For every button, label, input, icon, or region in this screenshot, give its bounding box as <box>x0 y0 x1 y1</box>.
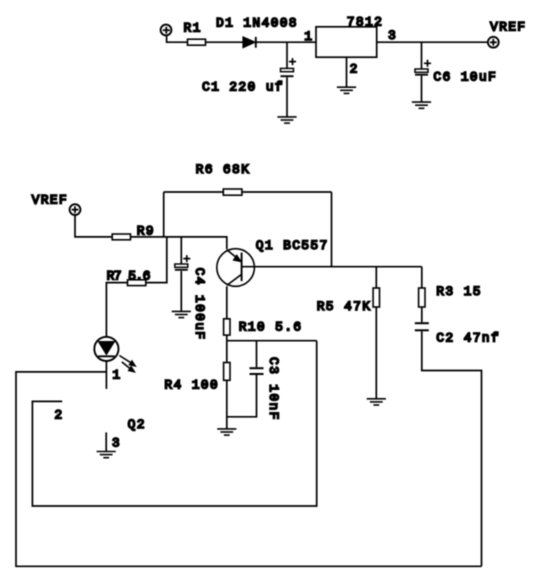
svg-text:C3 10nF: C3 10nF <box>266 357 281 421</box>
wire Q1 base line to R3 corner <box>242 266 422 268</box>
wire node N1 up to R6 (left leg) <box>163 192 165 237</box>
svg-text:C6 10uF: C6 10uF <box>433 69 497 84</box>
capacitor C1 220uf (polarized) <box>281 68 294 76</box>
svg-text:C4 100uF: C4 100uF <box>192 268 207 341</box>
svg-text:R10 5.6: R10 5.6 <box>239 319 303 334</box>
wire C1 to ground <box>286 77 288 117</box>
svg-text:2: 2 <box>54 407 63 422</box>
wire junction rail right to inner loop <box>227 340 317 342</box>
node N1 tap to C4 <box>180 237 182 264</box>
ground (U1 pin 2) <box>337 87 356 93</box>
wire C4 to ground <box>180 271 182 311</box>
svg-text:R1: R1 <box>184 21 202 36</box>
wire C3 bottom to R4 bottom node <box>227 375 257 417</box>
resistor R6 <box>223 189 242 195</box>
input terminal (plus circle) <box>161 25 172 36</box>
wire U1 pin 2 to ground <box>346 57 348 87</box>
resistor R5 <box>373 288 379 307</box>
wire input terminal to R1 <box>167 36 188 43</box>
wire D1 to U1 pin 1 <box>256 41 316 43</box>
svg-text:1: 1 <box>112 367 121 382</box>
resistor R10 <box>224 319 230 335</box>
svg-text:R5 47K: R5 47K <box>317 299 372 314</box>
wire LED node left to outer loop <box>16 372 482 566</box>
wire base line corner down to R3 <box>421 267 423 288</box>
capacitor C3 10nF <box>250 368 264 374</box>
terminal VREF (output) <box>488 37 499 48</box>
plus mark C6 <box>424 60 431 67</box>
node: C6 tap junction <box>421 42 423 69</box>
ground (C6) <box>412 102 431 108</box>
ground (R4) <box>217 429 236 435</box>
wire R5 tap down <box>375 267 377 288</box>
svg-text:D1 1N4008: D1 1N4008 <box>216 15 298 30</box>
svg-text:C2 47nf: C2 47nf <box>436 330 500 345</box>
wire C6 to ground <box>421 76 423 102</box>
resistor R9 <box>112 234 130 240</box>
wire node N1 down to R7 (right leg) <box>146 237 167 283</box>
svg-text:C1 220 uf: C1 220 uf <box>202 79 284 94</box>
wire R9 to Q1 emitter (node N1) <box>131 237 227 249</box>
wire VREF terminal to R9 <box>75 215 112 237</box>
diode D1 1N4008 <box>243 37 256 48</box>
wire Q2 pin 2 stub and inner loop <box>32 341 316 506</box>
svg-text:2: 2 <box>350 62 359 77</box>
svg-text:VREF: VREF <box>490 19 526 34</box>
node: C1 tap junction <box>286 42 288 68</box>
wire R6 top rail <box>164 191 332 193</box>
terminal VREF (mid, input to LED stage) <box>70 204 81 215</box>
LED emission arrow 2 <box>122 362 135 372</box>
ground (C1) <box>277 117 296 123</box>
transistor Q1 BC557 (PNP) <box>217 249 255 287</box>
resistor R3 <box>419 288 425 307</box>
resistor R1 <box>188 39 206 45</box>
capacitor C2 47nf <box>415 323 429 330</box>
capacitor C4 100uF (polarized) <box>175 264 188 270</box>
ground (Q2 pin 3) <box>97 452 116 458</box>
wire U1 pin 3 to VREF terminal <box>377 41 488 43</box>
ground (C4) <box>172 311 191 317</box>
wire R10 junction to R4 <box>226 341 228 363</box>
svg-text:R7 5.6: R7 5.6 <box>107 268 150 283</box>
svg-text:R4 100: R4 100 <box>164 377 219 392</box>
wire R7 to LED anode <box>106 283 127 337</box>
svg-text:R3 15: R3 15 <box>436 284 482 299</box>
svg-text:VREF: VREF <box>32 192 68 207</box>
plus mark C1 <box>289 58 296 65</box>
wire C3 tap down <box>256 341 258 368</box>
svg-text:1: 1 <box>304 29 313 44</box>
LED emission arrow 1 <box>119 356 135 367</box>
svg-text:Q2: Q2 <box>128 417 146 432</box>
svg-text:R6 68K: R6 68K <box>196 162 251 177</box>
wire R6 right leg down to base line <box>331 192 333 267</box>
wire R4 to ground <box>226 380 228 428</box>
ground (R5) <box>367 399 386 405</box>
regulator U1 7812 <box>316 27 377 57</box>
wire Q2 pin 3 to ground <box>105 432 107 451</box>
svg-text:3: 3 <box>112 435 121 450</box>
wire C2 down and around to bottom rail <box>422 331 482 566</box>
wire R1 to D1 <box>206 41 244 43</box>
capacitor C6 10uF (polarized) <box>415 69 428 75</box>
resistor R7 <box>128 280 146 286</box>
wire LED cathode to Q2 pin 1 <box>105 361 107 389</box>
wire R5 to ground <box>375 307 377 399</box>
wire R10 to junction rail <box>226 335 228 341</box>
svg-text:Q1 BC557: Q1 BC557 <box>256 238 329 253</box>
resistor R4 <box>224 363 230 381</box>
wire Q1 collector down to R10 <box>226 286 228 319</box>
wire R3 to C2 <box>421 307 423 322</box>
svg-text:3: 3 <box>388 28 397 43</box>
svg-text:7812: 7812 <box>347 14 383 29</box>
plus mark C4 <box>183 255 190 262</box>
LED D2 <box>94 337 118 361</box>
